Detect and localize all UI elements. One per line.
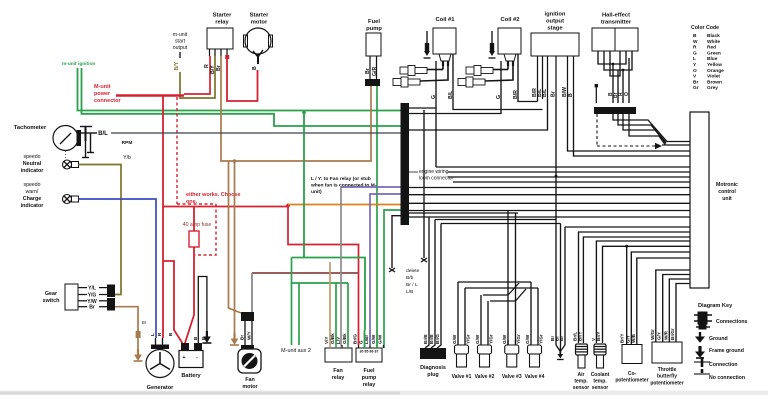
wire valve bus lines [458,281,531,283]
svg-text:B/L: B/L [98,131,108,137]
tach connector pins [77,130,82,146]
svg-text:Fuel: Fuel [363,368,375,374]
wire dotted tach to speedo [65,151,67,160]
wire valve riser 1 [507,211,509,346]
svg-text:G: G [496,95,502,99]
svg-text:one.: one. [186,199,198,205]
svg-text:Coil #2: Coil #2 [500,17,519,23]
wire m-unit start output stub [179,52,181,58]
wire red main to junction [163,206,288,208]
svg-text:transmitter: transmitter [601,20,632,26]
svg-text:G/Bk: G/Bk [342,333,347,344]
svg-text:Coil #1: Coil #1 [435,17,455,23]
svg-text:O: O [624,92,630,96]
scan artifact strip [0,391,768,396]
wire coil2 B/R pin [518,54,538,102]
svg-text:M-unit aux 2: M-unit aux 2 [281,348,311,354]
svg-text:W/Y: W/Y [247,331,252,340]
wire M-unit power red feed [116,94,184,97]
svg-text:G: G [693,50,697,56]
svg-text:Brown: Brown [707,79,722,85]
connector Br inline [136,331,141,338]
svg-text:30 85 86 87: 30 85 86 87 [360,350,379,354]
label engine wiring loom connector [409,171,418,173]
wire coil2 G pin [409,61,501,114]
wire Br ground bundle vertical 3 [564,227,566,345]
svg-text:Y/Gr: Y/Gr [488,334,493,344]
wire battery minus loop to ground [198,277,207,344]
svg-text:G/W: G/W [452,334,457,344]
ground coil1 [426,31,428,43]
svg-text:Br/G: Br/G [435,334,440,344]
svg-text:Violet: Violet [707,74,720,80]
svg-text:Y/Gr: Y/Gr [465,334,470,344]
svg-text:G/W: G/W [502,334,507,344]
svg-text:Hall-effect: Hall-effect [602,13,630,19]
svg-text:Motronic: Motronic [716,182,738,188]
svg-text:Starter: Starter [250,13,269,19]
svg-text:start: start [175,39,186,45]
wire red down to fuel pump relay [288,207,359,331]
junction red orange [286,204,290,208]
svg-text:B/L: B/L [448,90,454,99]
svg-text:G/W: G/W [371,334,376,344]
hall wiring mesh [597,51,599,58]
spark plug P3 [466,66,493,76]
svg-text:sensor: sensor [573,385,589,391]
wire diag line 2 [435,219,556,221]
wire air temp sensor feeds [579,232,691,343]
frame ground battery [202,331,211,343]
wire deleted stub [423,110,425,258]
svg-text:speedo: speedo [23,154,40,160]
svg-text:potentiometer: potentiometer [615,378,648,384]
wire diagnosis feeds [425,217,429,348]
wire dashed hall reference with arrow [596,114,598,146]
wire maroon branch [252,272,359,274]
wire Br ground bundle vertical 2 [560,224,562,346]
svg-text:Fan: Fan [333,368,343,374]
svg-text:motor: motor [242,384,258,390]
svg-text:Co-: Co- [628,371,637,377]
svg-text:L: L [693,56,696,62]
svg-text:sensor: sensor [592,385,608,391]
connector hall black bar [594,107,636,114]
svg-text:Air: Air [578,372,585,378]
svg-text:Br: Br [142,320,147,325]
svg-text:Green: Green [707,50,721,56]
wire fuel relay G riser [364,330,366,348]
svg-text:L/Y: L/Y [336,337,341,344]
wire blue charge to generator [79,199,157,338]
wire violet1 to loom [341,186,401,188]
valve V4 [530,282,532,345]
svg-text:Fuel: Fuel [368,19,380,25]
junction Br [555,175,558,178]
svg-text:B: B [693,33,697,39]
svg-text:Y/Gr: Y/Gr [538,334,543,344]
svg-text:control: control [718,189,736,195]
svg-text:Valve #2: Valve #2 [475,374,495,380]
ECU Motronic control unit [690,112,709,288]
svg-text:G/W: G/W [377,334,382,344]
wire violet2 fuel relay to loom [370,194,401,330]
svg-text:potentiometer: potentiometer [650,381,683,387]
svg-text:Br/B: Br/B [423,334,428,344]
wire Br to ECU [565,226,690,228]
wire loom to ECU y213 [409,212,518,214]
svg-text:plug: plug [427,372,438,378]
svg-text:Neutral: Neutral [23,161,42,167]
wire brown fan branch 1 [229,161,242,313]
svg-text:No connection: No connection [709,375,745,381]
wire fuel pump green down to fuel pump relay [376,86,378,330]
svg-text:indicator: indicator [21,168,45,174]
svg-text:Br: Br [240,335,245,340]
wire Br gear switch to ground [115,307,138,349]
svg-text:motor: motor [251,20,268,26]
svg-text:indicator: indicator [21,203,45,209]
svg-text:G/W: G/W [475,334,480,344]
wire green aux branch [292,257,305,259]
svg-text:V/Y: V/Y [324,337,329,344]
wire RPM line B/L [111,132,401,134]
frame ground fan [230,333,239,345]
wire loom to ECU y217 [409,216,690,218]
wire co-potentiometer feeds [626,246,628,344]
wire tan fan relay pin [329,262,331,345]
svg-text:Battery: Battery [181,373,201,379]
svg-text:power: power [94,91,111,97]
svg-text:Gr: Gr [693,85,699,91]
junction green [302,111,306,115]
spark plug P1 [400,66,427,76]
svg-text:output: output [546,19,564,25]
svg-text:warn/: warn/ [26,189,39,195]
svg-text:B: B [252,66,258,70]
svg-text:either works. Choose: either works. Choose [186,192,241,198]
fan relay [325,348,352,362]
svg-text:G/Bk: G/Bk [330,333,335,344]
svg-text:m-unit ignition: m-unit ignition [62,61,95,67]
wire Y/b to gear switch [79,165,122,295]
valve V2 [480,295,482,345]
wire Br ground bundle vertical 1 [537,99,539,102]
svg-text:Valve #3: Valve #3 [502,374,522,380]
svg-text:Charge: Charge [23,196,42,202]
svg-text:Ground: Ground [709,336,728,342]
svg-text:Br/Y: Br/Y [620,334,625,343]
svg-text:White: White [707,39,720,45]
svg-text:temp.: temp. [593,379,607,385]
connector gear switch [107,285,115,298]
svg-text:Tachometer: Tachometer [14,125,47,131]
junction brown [233,159,237,163]
svg-text:-: - [196,355,198,361]
wire green m-unit to fan relay region [304,113,365,330]
svg-text:Valve #1: Valve #1 [452,374,472,380]
svg-text:temp.: temp. [574,379,588,385]
ground coil2 [491,31,493,43]
wire coil1 G pin [435,61,437,167]
svg-text:O: O [693,68,697,74]
svg-text:connector: connector [94,98,121,104]
svg-text:Fan: Fan [245,377,255,383]
wire green to loom from fuel relay [384,210,401,348]
svg-text:Br: Br [693,79,698,85]
wire valve bus diagonals [508,283,519,295]
wire ECU bundle upper [436,166,690,168]
wire loom right outputs [409,187,690,189]
wire relay pin4 red to starter motor [227,57,258,101]
svg-text:R: R [693,45,697,51]
svg-text:Br/B: Br/B [429,334,434,344]
svg-text:40 amp fuse: 40 amp fuse [183,222,212,228]
wire red branch to battery [163,206,165,208]
wire grey L/Y stub [340,187,342,345]
svg-text:Black: Black [707,33,720,39]
wire m-unit ignition green pair [78,68,410,111]
svg-text:Br/Y: Br/Y [577,332,582,341]
svg-text:Y/Gr: Y/Gr [516,334,521,344]
svg-text:unit: unit [722,196,732,202]
wire diag line 3 [441,223,561,225]
svg-text:B/L: B/L [542,88,548,97]
generator [146,350,174,378]
svg-text:Color Code: Color Code [691,25,719,31]
svg-text:relay: relay [332,375,345,381]
svg-text:L/B: L/B [406,289,413,295]
svg-text:Connections: Connections [716,319,748,325]
wire orange to loom connector [288,204,401,206]
svg-text:+: + [182,355,185,361]
svg-text:relay: relay [215,20,229,26]
svg-text:Coolant: Coolant [591,372,610,378]
svg-text:Br: Br [559,336,564,341]
svg-text:Valve #4: Valve #4 [525,374,545,380]
battery [179,351,203,368]
junction co-pot BrY [625,245,628,248]
svg-text:W/B: W/B [631,333,636,343]
svg-text:Y/L: Y/L [88,286,96,292]
svg-text:pump: pump [362,375,377,381]
svg-text:Blue: Blue [707,56,718,62]
connector engine wiring loom [401,103,410,225]
svg-text:Br/G: Br/G [352,334,357,344]
svg-text:M-unit: M-unit [94,84,111,90]
svg-text:L: L [150,333,155,336]
svg-text:B: B [568,93,574,97]
svg-text:Diagnosis: Diagnosis [420,365,446,371]
svg-text:W/Gr: W/Gr [650,329,655,340]
svg-text:B/Y: B/Y [174,61,180,70]
svg-text:G/W: G/W [525,334,530,344]
svg-text:Orange: Orange [707,68,724,74]
svg-text:unit): unit) [311,189,322,195]
svg-text:pump: pump [366,26,382,32]
frame ground gear switch [134,349,143,361]
svg-text:Br: Br [89,305,95,311]
spark plug P4 [458,77,485,87]
svg-text:W/R: W/R [663,330,668,340]
diagnosis plug [420,348,446,359]
svg-text:G: G [431,95,437,99]
svg-text:L / Y: to Fan relay (or stub: L / Y: to Fan relay (or stub [311,176,371,182]
fan motor [238,349,261,373]
wire coil1 B/L pin [453,54,543,110]
svg-text:G/Y: G/Y [657,332,662,340]
wire red to starter relay R pin [184,56,210,94]
svg-text:RPM: RPM [122,140,133,146]
svg-text:B/R: B/R [513,90,519,99]
valve V3 [507,340,509,345]
wire Br starter relay to fuel pump [221,56,371,161]
svg-text:butterfly: butterfly [657,374,677,380]
wire coolant sensor feeds [596,241,690,343]
svg-text:Frame ground: Frame ground [709,348,744,354]
svg-text:Yellow: Yellow [707,62,722,68]
fuel pump relay [356,348,382,362]
svg-text:Y/G: Y/G [88,293,97,299]
wire valve riser 2 [515,213,517,345]
connector fuel pump [365,79,380,86]
svg-text:Br: Br [551,91,557,97]
svg-text:m-unit: m-unit [173,32,188,38]
wire hall outputs stepped to ECU [613,114,690,142]
wire ignition stage outputs to ECU [409,99,548,130]
svg-text:Starter: Starter [213,13,232,19]
svg-text:G/Y: G/Y [625,335,630,343]
svg-text:Br/Gr: Br/Gr [670,328,675,340]
node hall sensor stub [595,84,598,87]
valve V1 [457,282,459,345]
svg-text:B/b: B/b [406,275,414,281]
svg-text:stage: stage [547,26,563,32]
spark plug P2 [393,77,420,87]
svg-text:relay: relay [363,382,376,388]
svg-text:Red: Red [707,45,716,51]
connector fan motor [241,312,254,321]
svg-text:delete: delete [406,268,420,274]
svg-text:output: output [173,45,188,51]
svg-text:Connection: Connection [709,362,738,368]
wire red dashed alternative [176,97,178,204]
wire black stub at loom bottom [392,216,401,268]
svg-text:Gear: Gear [45,291,58,297]
svg-text:Diagram Key: Diagram Key [698,303,733,309]
wire red solid down to generator area [162,96,164,207]
svg-text:switch: switch [43,298,60,304]
ground Br bundle [559,351,561,354]
wire B/Y to starter relay [180,56,215,98]
svg-text:ignition: ignition [545,12,566,18]
svg-text:Br / L: Br / L [406,282,418,288]
svg-text:speedo: speedo [23,182,40,188]
wire throttle potentiometer feeds [656,270,690,342]
svg-text:Generator: Generator [147,385,175,391]
svg-text:Br/Y: Br/Y [596,332,601,341]
svg-text:Y/b: Y/b [123,155,131,161]
svg-text:W: W [693,39,698,45]
wire fuse feed [193,207,195,232]
svg-text:Throttle: Throttle [658,367,677,373]
wire brown fan branch 2 with ground [234,161,236,333]
svg-text:Grey: Grey [707,85,718,91]
